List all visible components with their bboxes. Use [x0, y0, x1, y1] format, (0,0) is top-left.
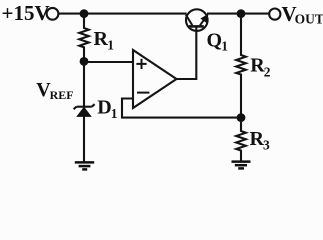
wire top rail left (terminal to Q1 collector) [59, 13, 187, 15]
svg-text:2: 2 [264, 64, 271, 79]
wire op-amp inverting input to feedback rail [122, 99, 241, 118]
svg-text:Q: Q [207, 29, 223, 51]
op-amp U1 [133, 50, 177, 108]
svg-text:3: 3 [263, 138, 270, 153]
terminal VOUT [269, 9, 280, 20]
resistor R3 [236, 118, 246, 162]
svg-text:+15V: +15V [2, 1, 50, 25]
svg-text:1: 1 [111, 106, 118, 121]
node junction top of R1 [80, 9, 89, 18]
resistor R1 [79, 14, 88, 62]
svg-text:1: 1 [221, 39, 228, 54]
wire to op-amp noninverting input [84, 61, 133, 63]
svg-text:OUT: OUT [295, 12, 323, 27]
wire op-amp output to Q1 base [177, 27, 197, 79]
resistor R2 [236, 14, 246, 118]
node junction R2/R3 feedback [237, 113, 246, 122]
ground (left, below D1) [75, 162, 94, 169]
terminal +15V input [47, 8, 59, 20]
node junction R1 bottom / op-amp + input [80, 57, 89, 66]
wire node to zener cathode [83, 61, 85, 106]
svg-text:R: R [94, 28, 109, 50]
transistor Q1 [186, 9, 208, 31]
ground (right, below R3) [232, 162, 251, 169]
svg-text:1: 1 [107, 38, 114, 53]
svg-text:D: D [97, 97, 111, 119]
zener diode D1 [74, 104, 95, 109]
svg-text:REF: REF [50, 88, 74, 102]
wire top rail right (Q1 emitter to VOUT terminal) [207, 13, 269, 15]
node junction top of R2 [237, 9, 246, 18]
wire zener anode to ground [83, 116, 85, 162]
